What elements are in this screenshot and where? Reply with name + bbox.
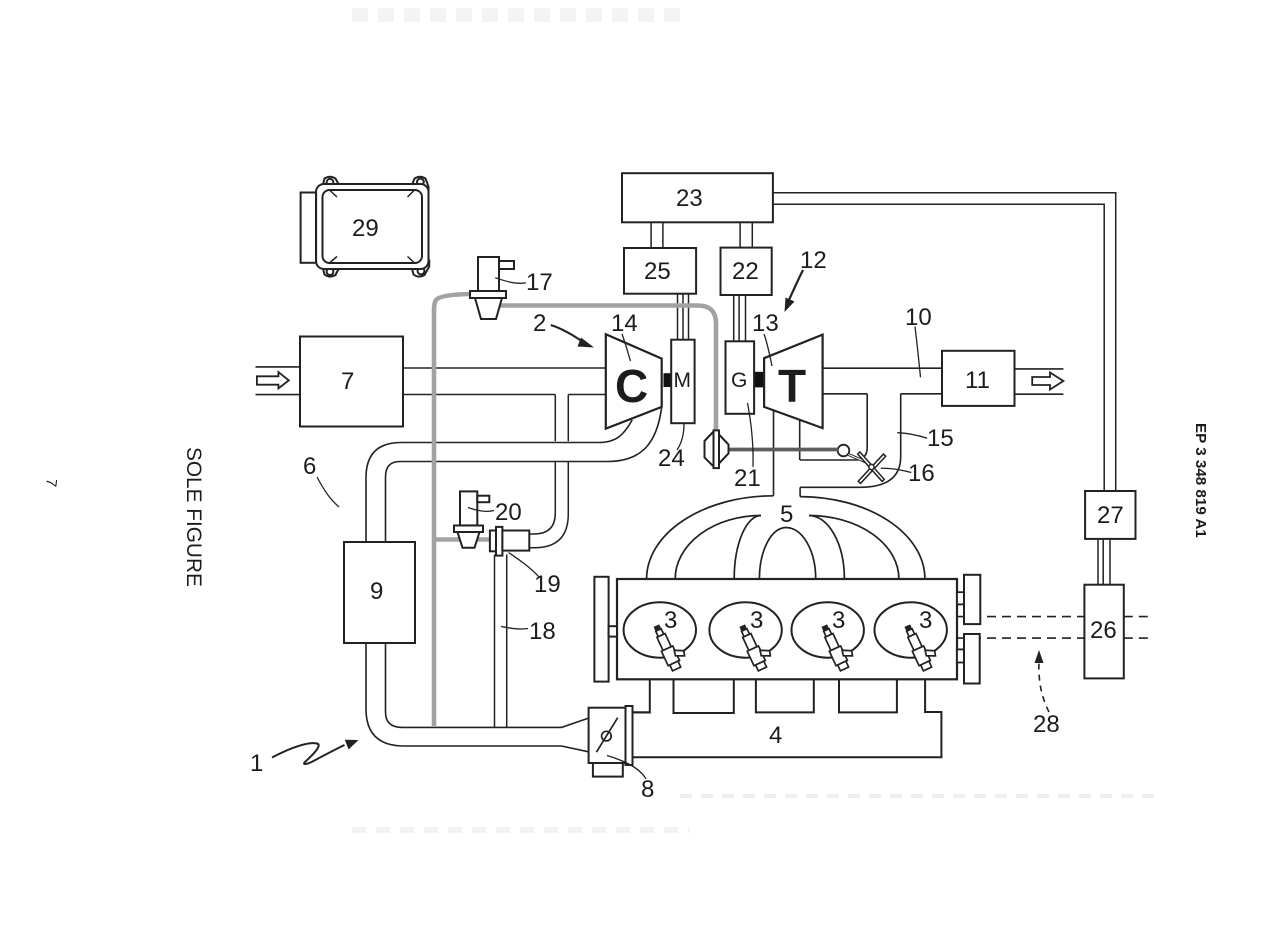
label 15 leader	[897, 433, 927, 439]
charge pipe 6 wall outer	[366, 420, 632, 752]
wastegate valve 16	[838, 445, 850, 457]
svg-text:18: 18	[529, 618, 556, 645]
svg-text:28: 28	[1033, 711, 1060, 738]
spark plug 3	[819, 620, 857, 671]
charge pipe 6 wall inner	[386, 407, 662, 727]
svg-text:3: 3	[919, 607, 932, 634]
injector 20	[454, 491, 489, 547]
outlet lines after 11	[1015, 369, 1064, 394]
injector 17	[470, 257, 514, 319]
svg-text:EP 3 348 819 A1: EP 3 348 819 A1	[1192, 423, 1209, 538]
label 14 leader	[622, 334, 631, 361]
svg-text:11: 11	[965, 367, 990, 394]
exhaust outlet arrow	[1032, 373, 1063, 390]
svg-text:17: 17	[526, 269, 553, 296]
label 1 squiggle arrow	[272, 743, 345, 764]
label 17 leader	[495, 278, 526, 284]
spark plug 2	[737, 620, 775, 671]
label 8 leader	[607, 756, 646, 780]
coupling G-T	[755, 372, 763, 388]
catalyst box 11	[942, 351, 1015, 406]
label 10 leader	[915, 327, 921, 378]
svg-text:23: 23	[676, 185, 703, 212]
wire 27-26	[1098, 539, 1110, 585]
svg-text:9: 9	[370, 578, 383, 605]
label 13 leader	[764, 334, 772, 366]
box 25	[624, 248, 696, 294]
wastegate downcomer 15	[800, 394, 901, 488]
generator box G	[726, 341, 755, 414]
cylinder 4	[875, 602, 947, 657]
svg-text:12: 12	[800, 247, 827, 274]
svg-text:14: 14	[611, 310, 638, 337]
box 26	[1084, 585, 1123, 679]
motor box M 24	[671, 340, 694, 424]
scan artifact row top	[352, 8, 688, 22]
air inlet arrow	[257, 372, 289, 388]
svg-text:3: 3	[750, 607, 763, 634]
svg-text:24: 24	[658, 445, 685, 472]
throttle body 8	[589, 706, 633, 777]
svg-text:20: 20	[495, 499, 522, 526]
svg-text:27: 27	[1097, 502, 1124, 529]
label 12 arrow	[789, 270, 803, 300]
spark plug 1	[651, 620, 689, 671]
box 22	[721, 248, 772, 295]
crankshaft dashed line upper	[957, 616, 1152, 618]
svg-text:10: 10	[905, 304, 932, 331]
label 16 leader	[881, 468, 911, 472]
svg-text:25: 25	[644, 258, 671, 285]
svg-text:29: 29	[352, 215, 379, 242]
svg-text:1: 1	[250, 750, 263, 777]
scan artifact rows bottom	[352, 796, 1160, 830]
turbine out pipe to box 11	[823, 368, 942, 394]
svg-text:22: 22	[732, 258, 759, 285]
cylinder 2	[709, 602, 781, 657]
label 21 leader	[748, 403, 754, 467]
dashed arrow 28	[1039, 661, 1049, 712]
wire 25-M	[678, 294, 689, 340]
svg-text:C: C	[615, 360, 648, 412]
right end plates	[964, 575, 980, 684]
svg-text:8: 8	[641, 776, 654, 803]
svg-text:7: 7	[341, 368, 354, 395]
svg-text:5: 5	[780, 501, 793, 528]
spark plug 4	[902, 620, 940, 671]
cylinder 1	[624, 602, 696, 657]
cylinder 3	[792, 602, 864, 657]
svg-text:3: 3	[832, 607, 845, 634]
svg-text:T: T	[778, 360, 806, 412]
ECU box 29	[301, 177, 430, 277]
gray harness vertical	[434, 294, 472, 726]
coupling C-M	[664, 373, 671, 387]
svg-text:21: 21	[734, 465, 761, 492]
wire 23 to 27 (top right run)	[773, 193, 1116, 491]
crankshaft dashed line lower	[957, 637, 1152, 639]
branch pipe to mixer 19	[529, 395, 568, 548]
actuator hexagon 21	[705, 430, 729, 468]
label 24 leader	[677, 424, 684, 450]
air filter box 7	[300, 337, 403, 427]
gray wire injector 17 to hexagon	[496, 306, 716, 431]
throttle link lines to block 4	[633, 711, 650, 713]
wire 23-22	[740, 222, 752, 247]
exhaust stem under turbine	[774, 410, 801, 497]
water pipe 18	[495, 555, 507, 728]
label 18 leader	[501, 627, 528, 630]
crankcase 4	[633, 679, 942, 757]
svg-text:2: 2	[533, 310, 546, 337]
svg-text:SOLE FIGURE: SOLE FIGURE	[182, 447, 205, 587]
wire 22-G	[734, 295, 746, 341]
svg-text:26: 26	[1090, 617, 1117, 644]
svg-text:13: 13	[752, 310, 779, 337]
mixer 19	[490, 527, 529, 556]
inlet pipe lines into box 7	[256, 367, 301, 395]
svg-text:M: M	[674, 369, 692, 392]
label 19 leader	[509, 553, 540, 578]
svg-text:G: G	[731, 369, 747, 392]
label 20 leader	[468, 508, 494, 512]
engine block	[617, 579, 957, 679]
left end plate	[594, 577, 617, 682]
box 23	[622, 173, 773, 222]
right end nubs	[957, 592, 964, 662]
intake manifold 5 runners	[647, 496, 925, 579]
svg-text:7: 7	[42, 478, 60, 488]
svg-text:16: 16	[908, 460, 935, 487]
gray wire to injector 20	[434, 537, 490, 542]
actuator rod gray	[729, 448, 839, 452]
wire 23-25	[651, 222, 663, 248]
svg-text:6: 6	[303, 453, 316, 480]
label 2 arrow	[551, 325, 583, 342]
box 27	[1085, 491, 1135, 539]
label 6 leader	[317, 477, 339, 507]
svg-text:19: 19	[534, 571, 561, 598]
turbine T trapezoid 13	[764, 335, 823, 429]
pipe 7 to compressor	[403, 368, 606, 395]
intercooler box 9	[344, 542, 415, 643]
svg-text:4: 4	[769, 722, 782, 749]
svg-text:3: 3	[664, 607, 677, 634]
svg-text:15: 15	[927, 425, 954, 452]
compressor C trapezoid 14	[606, 334, 662, 429]
